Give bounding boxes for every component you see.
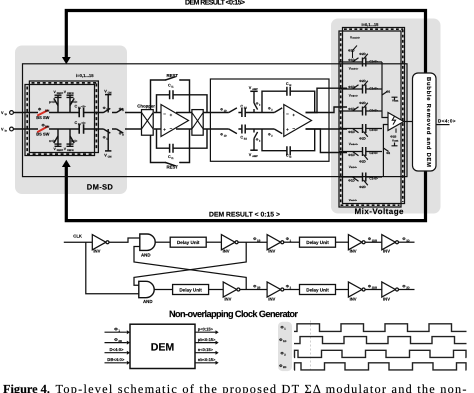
svg-text:2D: 2D xyxy=(283,366,286,369)
svg-text:REFP: REFP xyxy=(57,149,64,152)
svg-text:in: in xyxy=(5,130,8,133)
svg-text:D: D xyxy=(122,109,124,112)
svg-text:1B: 1B xyxy=(257,239,260,242)
svg-text:Mix-Voltage: Mix-Voltage xyxy=(355,207,405,216)
svg-text:Φ: Φ xyxy=(281,326,284,330)
svg-text:Φ: Φ xyxy=(402,285,405,289)
svg-text:C2<i>: C2<i> xyxy=(369,151,378,155)
svg-text:Φ1D: Φ1D xyxy=(348,153,355,157)
svg-text:C0<i>: C0<i> xyxy=(369,108,378,112)
svg-text:Φ: Φ xyxy=(281,352,284,356)
svg-text:Φ: Φ xyxy=(368,285,371,289)
svg-text:nb<0:15>: nb<0:15> xyxy=(198,357,216,362)
svg-text:Φ2D: Φ2D xyxy=(359,159,366,163)
svg-text:Φ1B: Φ1B xyxy=(390,135,396,139)
svg-text:<i>: <i> xyxy=(81,105,86,109)
svg-text:+: + xyxy=(286,127,289,132)
svg-text:REST: REST xyxy=(167,73,179,78)
svg-text:i=0,1...15: i=0,1...15 xyxy=(362,22,380,27)
svg-text:ip: ip xyxy=(5,113,8,116)
svg-text:Φ: Φ xyxy=(253,285,256,289)
svg-text:REFN: REFN xyxy=(67,92,74,95)
svg-text:Φ2D: Φ2D xyxy=(359,185,366,189)
svg-text:Φ: Φ xyxy=(279,338,282,342)
svg-text:D: D xyxy=(122,134,124,137)
svg-text:p<i>: p<i> xyxy=(49,100,56,104)
svg-text:C1<i>: C1<i> xyxy=(369,177,378,181)
svg-text:D<4:0>: D<4:0> xyxy=(110,347,125,352)
svg-text:−: − xyxy=(292,126,295,131)
svg-text:CM: CM xyxy=(108,92,112,95)
svg-text:INV: INV xyxy=(268,249,275,254)
svg-text:1D: 1D xyxy=(283,340,286,343)
svg-text:C3<i>: C3<i> xyxy=(369,128,378,132)
svg-text:2DB: 2DB xyxy=(372,287,377,290)
svg-text:REFP: REFP xyxy=(57,92,64,95)
svg-text:1D: 1D xyxy=(224,109,227,112)
svg-text:REFN: REFN xyxy=(67,149,74,152)
svg-text:C1<i>: C1<i> xyxy=(369,86,378,90)
svg-text:2D: 2D xyxy=(118,339,122,343)
svg-text:Φ: Φ xyxy=(286,237,289,241)
svg-text:Φ1D: Φ1D xyxy=(348,107,355,111)
svg-text:DEM RESULT <0:15>: DEM RESULT <0:15> xyxy=(185,0,245,7)
svg-text:p<0:15>: p<0:15> xyxy=(198,327,214,332)
svg-text:2D: 2D xyxy=(406,287,409,290)
svg-text:Φ: Φ xyxy=(402,237,405,241)
svg-text:n<i>: n<i> xyxy=(71,100,78,104)
svg-text:Chopper: Chopper xyxy=(137,103,155,108)
svg-text:AND: AND xyxy=(141,252,151,257)
svg-text:D<4:0>: D<4:0> xyxy=(438,118,456,123)
svg-text:REST: REST xyxy=(167,165,179,170)
svg-text:Φ1D: Φ1D xyxy=(348,85,355,89)
svg-text:Φ2D: Φ2D xyxy=(359,136,366,140)
svg-text:−: − xyxy=(170,126,173,131)
svg-text:AND: AND xyxy=(143,299,153,304)
svg-text:p<i>: p<i> xyxy=(71,139,78,143)
svg-text:DEM RESULT < 0:15 >: DEM RESULT < 0:15 > xyxy=(209,212,280,219)
svg-text:Φ2D: Φ2D xyxy=(359,79,366,83)
svg-text:Φ: Φ xyxy=(279,364,282,368)
svg-text:Bubble Removed and DEM: Bubble Removed and DEM xyxy=(425,77,432,167)
svg-text:DM-SD: DM-SD xyxy=(87,183,114,192)
svg-text:+: + xyxy=(292,113,295,118)
svg-text:Φ1D: Φ1D xyxy=(348,130,355,134)
svg-text:Φ: Φ xyxy=(253,237,256,241)
svg-text:BS SW: BS SW xyxy=(36,132,49,137)
svg-text:2B: 2B xyxy=(257,287,260,290)
svg-text:AMP: AMP xyxy=(252,155,258,158)
svg-text:AMP: AMP xyxy=(252,88,258,91)
svg-text:Φ2D: Φ2D xyxy=(359,101,366,105)
svg-text:Φ: Φ xyxy=(368,237,371,241)
svg-text:n<0:15>: n<0:15> xyxy=(198,347,214,352)
svg-text:1D: 1D xyxy=(224,134,227,137)
svg-text:Figure 4.: Figure 4. xyxy=(3,382,50,393)
svg-text:+: + xyxy=(170,113,173,118)
svg-text:INV: INV xyxy=(350,249,357,254)
svg-text:DEM: DEM xyxy=(151,341,175,353)
svg-text:BS SW: BS SW xyxy=(36,115,49,120)
svg-text:pb<0:15>: pb<0:15> xyxy=(198,337,216,342)
svg-text:Φ2: Φ2 xyxy=(386,89,390,93)
svg-text:Φ1D: Φ1D xyxy=(348,58,355,62)
svg-text:i=0,1...15: i=0,1...15 xyxy=(76,73,94,78)
svg-text:+: + xyxy=(163,127,166,132)
svg-text:Φ2: Φ2 xyxy=(386,151,390,155)
svg-text:INV: INV xyxy=(223,249,230,254)
svg-text:Φ1D: Φ1D xyxy=(348,49,355,53)
svg-text:Φ1D: Φ1D xyxy=(348,179,355,183)
svg-text:−: − xyxy=(286,112,289,117)
svg-text:Non-overlapping Clock Generato: Non-overlapping Clock Generator xyxy=(169,309,298,319)
svg-text:C2<i>: C2<i> xyxy=(369,59,378,63)
svg-text:INV: INV xyxy=(268,297,275,302)
svg-text:−: − xyxy=(163,112,166,117)
svg-text:INV: INV xyxy=(383,249,390,254)
svg-text:Φ2D: Φ2D xyxy=(359,52,366,56)
svg-text:1DB: 1DB xyxy=(372,239,377,242)
svg-text:DB<4:0>: DB<4:0> xyxy=(107,357,125,362)
svg-text:Φ: Φ xyxy=(286,285,289,289)
svg-text:CM: CM xyxy=(108,155,112,158)
svg-text:Top-level schematic of the pro: Top-level schematic of the proposed DT Σ… xyxy=(56,382,467,393)
svg-text:INV: INV xyxy=(93,249,100,254)
svg-text:CLK: CLK xyxy=(73,233,82,238)
svg-text:INV: INV xyxy=(224,297,231,302)
svg-text:<i>: <i> xyxy=(81,121,86,125)
svg-text:1D: 1D xyxy=(406,239,409,242)
svg-text:n<i>: n<i> xyxy=(49,139,56,143)
svg-text:INV: INV xyxy=(383,297,390,302)
svg-text:INV: INV xyxy=(350,297,357,302)
